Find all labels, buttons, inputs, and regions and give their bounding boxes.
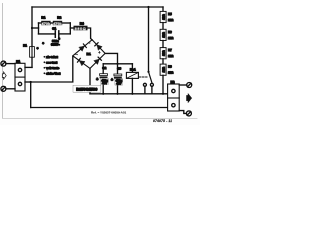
connector K1 box [15, 63, 25, 91]
wire C2 bottom lead [102, 78, 104, 94]
arrow mains input [2, 72, 6, 79]
svg-text:+: + [96, 77, 98, 81]
svg-text:R2: R2 [57, 16, 61, 20]
K1 pin 2 circle [18, 82, 21, 85]
node relay minus junction [131, 93, 133, 95]
svg-text:22Ω: 22Ω [168, 71, 173, 75]
wire left bus of RC dropper [38, 23, 40, 34]
K1 pin 1 circle [18, 68, 21, 71]
wire bridge minus drop below label [89, 92, 91, 93]
legend bullet 2 [44, 61, 46, 63]
node top rail contact tap [147, 6, 149, 8]
value C3 470u 40V boxed [115, 79, 123, 86]
wire bridge minus drop [89, 68, 91, 85]
svg-text:C3: C3 [117, 67, 121, 71]
wire K2 bottom to terminal [179, 111, 186, 114]
load terminal bottom-right [186, 111, 191, 116]
wire C3 bottom lead [117, 79, 119, 94]
resistor R7 vertical [160, 48, 166, 59]
wire R2 to right bus [62, 22, 70, 24]
type label B250C1500 boxed [73, 85, 101, 92]
node plus rail feed [116, 63, 118, 65]
svg-text:B1: B1 [87, 52, 91, 56]
svg-text:Ref. = Y02657-06059-A01: Ref. = Y02657-06059-A01 [91, 111, 126, 115]
svg-text:22Ω: 22Ω [162, 66, 166, 72]
bridge diode lower-left [78, 58, 86, 65]
wire right bus of RC dropper [69, 23, 71, 34]
node contact pivot [147, 71, 149, 73]
bridge diode upper-right [95, 43, 102, 51]
wire top rail L [32, 6, 163, 8]
svg-text:R5: R5 [168, 12, 172, 16]
mains terminal bottom-left [1, 86, 6, 91]
wire C1 left [39, 33, 55, 35]
K2 pin 1 circle [172, 89, 175, 92]
resistor R2 470k [53, 21, 63, 26]
capacitor C3 electrolytic [114, 74, 122, 79]
legend bullet 3 [44, 67, 46, 69]
wire R4 to bridge top [88, 28, 93, 40]
resistor R8 vertical [160, 64, 166, 75]
svg-text:R4: R4 [80, 21, 84, 25]
resistor R1 470k [41, 21, 51, 26]
svg-text:22Ω: 22Ω [168, 18, 173, 22]
svg-text:470k: 470k [53, 22, 62, 26]
bridge rectifier B1 diamond [73, 40, 105, 69]
border frame [3, 4, 198, 119]
svg-text:K1: K1 [16, 59, 20, 63]
node chain bottom junction [162, 93, 164, 95]
svg-text:B250C1500: B250C1500 [76, 88, 97, 92]
wire series chain drop from rail end [162, 7, 164, 11]
wire R5-R6 [162, 23, 164, 30]
relay mechanical link dashes [139, 76, 147, 78]
svg-text:40V: 40V [116, 82, 121, 86]
svg-text:siehe Text: siehe Text [46, 72, 60, 76]
fuse F1 [30, 46, 35, 58]
svg-text:22Ω: 22Ω [162, 31, 166, 37]
capacitor C2 electrolytic [100, 74, 108, 79]
wire N down to bottom rail [30, 82, 32, 108]
wire terminal to K1 top [6, 63, 15, 65]
wire C2 top lead [102, 64, 104, 74]
wire bridge plus output to C rail [105, 53, 117, 63]
wire stub into R4 [70, 27, 73, 29]
wire chain bottom to rail [162, 75, 164, 94]
K2 pin 2 circle [172, 104, 175, 107]
relay Re1 coil [126, 72, 138, 78]
svg-text:390Ω: 390Ω [75, 27, 87, 31]
svg-text:~: ~ [88, 40, 91, 45]
resistor R4 390R [74, 26, 88, 31]
wire terminal to K1 bottom [6, 88, 15, 90]
svg-text:zie tekst: zie tekst [46, 55, 57, 59]
svg-text:R7: R7 [168, 48, 172, 52]
wire R1-R2 [51, 22, 53, 24]
mains terminal top-left [1, 61, 6, 66]
node C3 minus junction [116, 93, 118, 95]
svg-text:R1: R1 [41, 16, 45, 20]
wire stub into R1 [39, 22, 42, 24]
svg-text:385V~: 385V~ [51, 43, 60, 47]
svg-text:40V: 40V [102, 81, 107, 85]
svg-text:K2: K2 [171, 80, 175, 84]
wire relay coil feed [131, 64, 133, 73]
wire K1 top cell to fuse column [25, 66, 32, 68]
svg-text:22Ω: 22Ω [168, 54, 173, 58]
resistor R6 vertical [160, 29, 166, 40]
wire R6-R7 [162, 41, 164, 48]
svg-text:074075 - 11: 074075 - 11 [153, 119, 172, 123]
node junction dropper tap [31, 27, 39, 29]
relay contact arm [149, 72, 152, 83]
wire R7-R8 [162, 59, 164, 64]
svg-text:470k: 470k [42, 22, 51, 26]
svg-text:C2: C2 [102, 66, 106, 70]
svg-text:R6: R6 [168, 30, 172, 34]
relay contact terminal left [143, 83, 146, 86]
svg-text:Re1: Re1 [130, 68, 136, 72]
node C2 minus junction [102, 93, 104, 95]
legend bullet 4 [44, 72, 46, 74]
load terminal top-right [187, 83, 192, 88]
svg-text:F1: F1 [23, 43, 27, 47]
wire N to bridge left riser [31, 56, 73, 82]
wire bottom rail [31, 107, 168, 109]
svg-text:see text: see text [46, 61, 57, 65]
wire DC minus rail from bridge to K2 [90, 93, 168, 95]
svg-text:voir texte: voir texte [46, 66, 59, 70]
value C2 470u 40V boxed [101, 78, 109, 85]
wire left vertical from rail through fuse level [31, 7, 33, 67]
svg-text:+: + [111, 78, 113, 82]
svg-text:22Ω: 22Ω [162, 14, 166, 20]
resistor R5 vertical [160, 11, 166, 22]
svg-text:~: ~ [75, 52, 78, 57]
svg-text:R8: R8 [168, 65, 172, 69]
wire relay contact feed from top rail [148, 7, 150, 72]
wire K2 top to terminal [179, 84, 186, 86]
svg-text:22Ω: 22Ω [168, 36, 173, 40]
relay contact terminal right [150, 83, 153, 86]
wire contact right terminal down [151, 86, 153, 94]
wire C1 right [60, 33, 71, 35]
capacitor C1 plates [55, 31, 59, 37]
wire relay coil to minus rail [131, 78, 133, 93]
wire contact left terminal down [144, 86, 146, 94]
node N junction [30, 81, 32, 83]
legend bullet 1 [44, 56, 46, 58]
wire C3 top lead from plus feed [117, 64, 119, 74]
svg-text:22Ω: 22Ω [162, 50, 166, 56]
svg-text:C1: C1 [52, 27, 56, 31]
bridge diode upper-left [79, 44, 86, 51]
arrow load output [187, 93, 192, 102]
bridge diode lower-right [94, 57, 102, 64]
wire K1 bottom cell to N node [25, 81, 31, 83]
connector K2 box [168, 84, 180, 111]
wire DC plus rail [103, 63, 132, 65]
